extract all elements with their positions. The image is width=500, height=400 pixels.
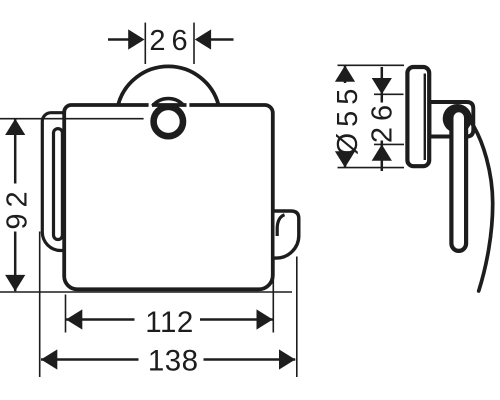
dim 92 left: dimension line segments — [14, 119, 17, 184]
dim O55: bottom arrow — [335, 151, 355, 167]
white slit right of collar — [187, 102, 190, 109]
svg-text:92: 92 — [2, 185, 34, 229]
dim 26 top: right extension line — [193, 23, 195, 64]
dim 26 top: left arrow + tail — [108, 38, 130, 41]
dim 112: left extension line — [65, 295, 67, 333]
svg-text:26: 26 — [366, 99, 398, 143]
dim O55: top arrow — [335, 66, 355, 82]
dim 92: top arrow — [5, 119, 25, 135]
dim O55: bottom extension line — [338, 167, 405, 169]
wall plate inner face line — [424, 74, 426, 161]
roll pin ring — [154, 107, 183, 136]
white slit left of collar — [149, 102, 152, 109]
dim O55: top extension line — [338, 64, 405, 66]
dim 26 top: left extension line — [144, 23, 146, 64]
spare-roll hook (front view right side) — [273, 211, 299, 258]
dim 92: top extension line (to pin axis) — [0, 118, 144, 120]
dim 138: line segments — [41, 358, 139, 361]
dim 26 side: line segments — [381, 67, 384, 103]
svg-text:26: 26 — [149, 25, 193, 57]
svg-text:138: 138 — [148, 344, 199, 377]
dim 26 side: bottom extension line — [374, 143, 404, 145]
dim 26 side: bottom arrow — [372, 144, 392, 160]
pin collar boss — [148, 99, 189, 140]
paper sheet slot (front view) — [54, 129, 63, 240]
dim 138: right arrow — [279, 349, 295, 369]
mounting arc (big semicircle behind cover) — [118, 66, 219, 105]
dim 112: line segments — [66, 318, 135, 321]
svg-text:112: 112 — [145, 306, 194, 339]
svg-text:Ø55: Ø55 — [332, 83, 364, 156]
paper roll outline (front view, behind cover) — [42, 113, 74, 251]
wall plate (side view) — [407, 67, 429, 166]
dim 138: left extension line — [39, 232, 41, 378]
dim 26 side: top arrow — [372, 78, 392, 94]
dim 92: bottom arrow — [5, 275, 25, 291]
dim 138: right extension line — [296, 257, 298, 378]
arm (side view) — [451, 110, 466, 251]
hub disc (side view) — [443, 104, 472, 133]
dim 26 top: right arrow + tail — [209, 38, 234, 41]
dim 26 side: top extension line — [374, 93, 404, 95]
dim 92: bottom extension line — [0, 291, 292, 293]
dim 112: right arrow — [257, 309, 273, 329]
dim 112: left arrow — [66, 309, 82, 329]
dim 138: left arrow — [41, 349, 57, 369]
mounting stem (side view) — [430, 102, 474, 137]
cover plate (front view) — [64, 105, 273, 289]
dim O55: line segments — [344, 66, 347, 83]
dim 112: right extension line — [272, 260, 274, 333]
hook inner curve — [277, 215, 284, 236]
curved wire holder (side view) — [472, 124, 492, 291]
